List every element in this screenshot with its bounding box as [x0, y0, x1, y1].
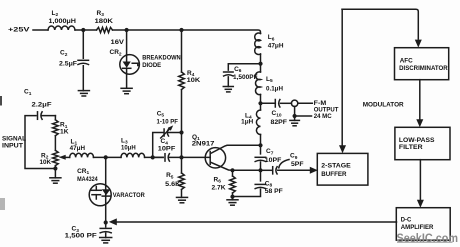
svg-text:1K: 1K — [60, 129, 69, 136]
capacitor C9 — [261, 169, 273, 171]
svg-text:2.5μF: 2.5μF — [59, 61, 77, 68]
svg-text:10K: 10K — [40, 159, 52, 166]
node tank junction FM output — [258, 101, 262, 105]
svg-text:2N917: 2N917 — [192, 141, 215, 148]
capacitor C7 — [255, 156, 266, 158]
box 2-stage buffer — [317, 153, 368, 185]
terminal FM output circle — [291, 100, 297, 106]
box AFC discriminator — [395, 48, 449, 80]
svg-text:2.2μF: 2.2μF — [32, 102, 52, 109]
signal input loop and C1 — [25, 116, 55, 169]
svg-text:1-10 PF: 1-10 PF — [157, 118, 179, 125]
svg-text:BUFFER: BUFFER — [321, 171, 346, 178]
connector LPF to DC amp — [419, 160, 421, 201]
ground under FM output — [290, 119, 300, 121]
svg-text:2-STAGE: 2-STAGE — [321, 162, 351, 169]
potentiometer R2 — [53, 150, 59, 165]
svg-text:0.1μH: 0.1μH — [266, 86, 284, 93]
svg-text:10PF: 10PF — [158, 145, 176, 152]
capacitor C2 — [82, 30, 84, 91]
node junction R4 on rail — [179, 28, 183, 32]
node junction C5 right — [179, 130, 183, 134]
svg-text:10μH: 10μH — [121, 145, 136, 152]
wire +25V supply rail — [33, 30, 261, 34]
svg-text:DIODE: DIODE — [142, 62, 162, 69]
leader line C9 — [279, 160, 289, 168]
box low-pass filter — [395, 127, 450, 159]
node tank junction emitter/C9 — [258, 168, 262, 172]
svg-text:58 PF: 58 PF — [265, 188, 283, 195]
resistor R5 — [179, 173, 185, 190]
node junction below FM terminal — [293, 114, 297, 118]
inductor L4 — [256, 110, 260, 135]
node junction emitter/R6 — [230, 168, 234, 172]
node junction CR2 on rail — [125, 28, 129, 32]
ground under C6 — [223, 86, 233, 88]
svg-text:DISCRIMINATOR: DISCRIMINATOR — [399, 65, 448, 72]
capacitor C1 — [37, 112, 39, 120]
ground under R2 — [54, 169, 56, 178]
svg-text:AFC: AFC — [400, 58, 413, 65]
resistor R1 — [54, 116, 56, 151]
ground under CR2 — [121, 87, 132, 89]
svg-text:10K: 10K — [187, 77, 201, 84]
box D-C amplifier — [396, 208, 450, 241]
trimmer capacitor C5 — [153, 133, 182, 158]
ground under R6 — [227, 199, 238, 201]
capacitor C8 — [255, 183, 266, 185]
svg-text:SeekIC.com: SeekIC.com — [397, 233, 459, 245]
zener diode CR2 breakdown diode — [126, 30, 128, 88]
wiper arrow of R2 — [59, 155, 66, 160]
scan artifact left edge dark — [0, 96, 2, 106]
ground under C3 — [100, 237, 112, 239]
capacitor C4 — [164, 154, 166, 161]
svg-text:FILTER: FILTER — [399, 144, 423, 151]
svg-text:5.6K: 5.6K — [165, 181, 181, 188]
svg-text:VARACTOR: VARACTOR — [113, 192, 145, 199]
varactor CR1 MA4324 — [105, 157, 107, 222]
resistor R4 — [181, 30, 183, 133]
svg-text:24 MC: 24 MC — [314, 113, 332, 120]
resistor R6 — [232, 170, 234, 176]
svg-text:1,500PF: 1,500PF — [233, 74, 258, 81]
svg-text:1μH: 1μH — [241, 119, 254, 126]
transistor Q1 2N917 — [205, 148, 225, 168]
svg-text:LOW-PASS: LOW-PASS — [399, 137, 435, 144]
svg-text:82PF: 82PF — [271, 119, 288, 126]
scan artifact left edge gray — [0, 198, 5, 210]
svg-text:BREAKDOWN: BREAKDOWN — [142, 55, 181, 62]
svg-text:47μH: 47μH — [70, 145, 86, 152]
node junction R6 bottom — [230, 195, 234, 199]
svg-text:47μH: 47μH — [268, 43, 284, 50]
inductor L6 — [255, 33, 261, 54]
feedback line DC amp to varactor — [116, 221, 397, 223]
svg-text:AMPLIFIER: AMPLIFIER — [401, 224, 434, 231]
svg-text:5PF: 5PF — [291, 161, 304, 168]
node junction C5 branch — [151, 155, 155, 159]
svg-text:10PF: 10PF — [265, 157, 282, 164]
node tank junction collector — [258, 143, 262, 147]
svg-text:180K: 180K — [95, 18, 114, 25]
capacitor C10 — [261, 102, 276, 104]
feedback line top — [342, 9, 418, 39]
svg-text:1,000μH: 1,000μH — [49, 18, 77, 25]
ground under R5 — [177, 196, 188, 198]
svg-text:MA4324: MA4324 — [77, 176, 98, 183]
capacitor C6 — [228, 64, 260, 87]
svg-text:+25V: +25V — [8, 27, 31, 34]
svg-text:1,500 PF: 1,500 PF — [65, 233, 97, 240]
svg-text:INPUT: INPUT — [2, 142, 23, 149]
svg-text:2.7K: 2.7K — [212, 185, 226, 192]
capacitor C3 — [105, 223, 107, 238]
svg-text:D-C: D-C — [401, 216, 412, 223]
svg-text:16V: 16V — [111, 39, 125, 46]
ground under C2 — [78, 90, 89, 92]
node junction R2 bottom — [53, 166, 57, 170]
inductor L5 — [256, 72, 261, 95]
connector AFC to LPF — [419, 80, 421, 121]
resistor R3 — [97, 27, 113, 32]
node junction varactor branch — [104, 155, 108, 159]
node junction C2 on rail — [81, 28, 85, 32]
node junction base/C4 — [179, 155, 183, 159]
inductor L2 — [48, 26, 75, 30]
node tank junction C6 — [258, 62, 262, 66]
inductor L3 — [121, 153, 145, 157]
inductor L1 — [70, 153, 94, 157]
svg-text:MODULATOR: MODULATOR — [363, 101, 404, 108]
node junction C3 — [104, 220, 108, 224]
